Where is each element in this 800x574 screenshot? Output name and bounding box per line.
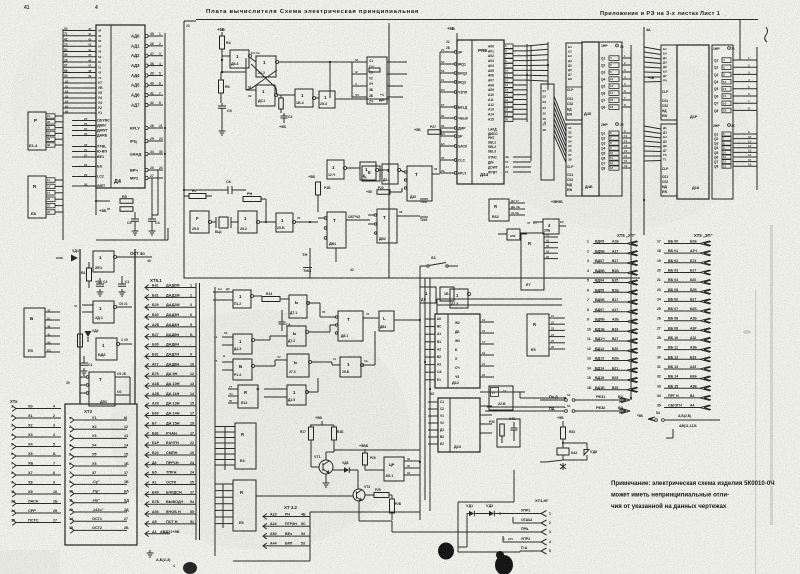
connector XT5.1 pin Б92 РЧАН (145, 432, 149, 438)
resistor R23 (374, 493, 389, 498)
wire D5 to PRE rows (386, 83, 388, 85)
capacitor C46 (511, 428, 518, 430)
wire 2D1 inputs (82, 304, 93, 306)
flip-flop DV2 (377, 209, 397, 243)
IC E62 pins (509, 202, 525, 204)
connector XT2 pin 3 У3 (70, 436, 74, 442)
IC D12 right stubs (480, 321, 494, 323)
wire fan PRE to D45 (527, 44, 548, 46)
wire xt4 row4 (503, 541, 541, 543)
box R30 C46 (497, 419, 520, 447)
IC D45 input column group2 (566, 124, 582, 196)
capacitor C5a (131, 219, 139, 221)
gate D1.3 (233, 334, 252, 354)
wire xt4 row5 (520, 550, 541, 552)
diode VD2 (85, 327, 92, 337)
connector XT1 pin 3 Х2 (12, 425, 16, 431)
IC D12 body (435, 314, 480, 388)
connector XT5 UP pin 1 ВД05 (593, 243, 627, 245)
IC D12 left stubs (425, 318, 435, 320)
connector XT5.1 body line (195, 283, 197, 540)
relay K42 (557, 448, 569, 455)
connector XT5 UP pin 15 ВД15 (593, 379, 627, 381)
connector XT3.2 pin ПГРЗН (263, 523, 267, 529)
IC E7 pins (544, 236, 558, 238)
gate 25.3a (319, 91, 335, 108)
IC E9 box (527, 314, 549, 356)
connector XT5 UP pin 6 ВД05 (593, 291, 627, 293)
gate 1B (360, 162, 376, 180)
bus vertical x631 (630, 45, 632, 400)
wire PRE output buses (526, 44, 528, 122)
connector XT5 ZP pin 17 ВБ 00 (664, 243, 700, 245)
gate DV1b (379, 311, 394, 331)
connector XT5.1 pin Д4 ПРР1Н (145, 462, 149, 468)
gate D6.1 (256, 85, 275, 106)
wire K42 loop (562, 443, 564, 448)
ink blob 3 (183, 562, 197, 574)
wire xt5 to P1.2 (213, 291, 233, 293)
frame right edge of oscillator section (388, 23, 390, 278)
connector XT4 pin УПР1 (541, 511, 547, 517)
wire D6.1 out (277, 94, 295, 96)
connector XT5.1 pin Б31 ДАД1М (145, 295, 149, 301)
connector XT5 ZP pin 32 ВБ 14 (664, 378, 700, 380)
IC E5 box (24, 308, 45, 357)
connector XT5.1 pin Б93 ДА 14Н (145, 413, 149, 419)
connector XT2 pin 10 .Пр" (70, 491, 74, 497)
IC D4 inner divider (110, 25, 112, 188)
resistor R5b (120, 207, 133, 212)
ink blob 2 (495, 555, 513, 574)
capacitor C1 (80, 363, 88, 365)
wire R18 to E6.1 (334, 449, 420, 451)
IC E12 left stubs (228, 388, 238, 390)
connector XT2 pin 7 37 (70, 472, 74, 478)
wire xt4 left loop (458, 501, 514, 503)
connector XT2 pin 14 ОСТ1 (70, 518, 74, 524)
connector XT5 UP pin 9 ВД0Б (593, 321, 627, 323)
connector XT5.1 pin А93 ВЧОБ Н (145, 511, 149, 517)
connector XT5.1 pin Б31 ДАД0М (145, 285, 149, 291)
IC D4 left pin group 2 (Y bus) (63, 82, 96, 84)
connector XT5 UP pin 14 ВД14 (593, 369, 627, 371)
IC D1R body (677, 45, 709, 199)
connector XT5 ZP pin 18 ВБ 01 (664, 252, 700, 254)
flip-flop D51 (89, 372, 115, 406)
IC E9 pins (549, 317, 565, 319)
gate 12.4 (327, 160, 344, 179)
bus verticals middle x420-430 (419, 266, 421, 520)
resistor R22 (377, 190, 390, 195)
gate D5.4 (382, 164, 398, 184)
connector XT5 ZP pin 23 ВБ 05 (664, 291, 700, 293)
wire xt4 row3 long (391, 521, 393, 532)
IC E8 pins (46, 178, 55, 182)
bus vertical right of D4 (164, 33, 166, 240)
gate D1.2 frame-bottom b (440, 287, 454, 301)
IC E5 pins (45, 311, 60, 313)
diode VD3 (344, 467, 349, 473)
wire osc internal (222, 71, 246, 73)
IC E4 left stubs (215, 426, 235, 428)
connector XT5 ZP pin 33 ВБ 15 (664, 387, 700, 389)
IC E6.1 pins (404, 460, 420, 462)
wire osc chain top (184, 189, 214, 191)
connector XT1 pin 7 ХБ (12, 463, 16, 469)
IC PRE left pins (454, 51, 457, 54)
connector XT5 UP pin 11 ВД1Ч (593, 340, 627, 342)
connector XT2 pin 11 .Но" (70, 500, 74, 506)
connector XT3.2 pin РН (263, 514, 267, 520)
connector XT1 pin 5 Х4 (12, 444, 16, 450)
connector XT5.1 last pin AVD21 (145, 531, 149, 537)
diode VD5 (489, 511, 494, 517)
gate 22.6 box (489, 386, 513, 410)
connector XT5.1 pin Б30 ДАД3Н (145, 314, 149, 320)
transistor VT2 (353, 489, 365, 501)
connector XT5 ZP pin 26 ВБ 08 (664, 320, 700, 322)
frame right corner (739, 20, 741, 61)
resistor R33 (561, 427, 566, 439)
wire xt4 row1 (467, 513, 469, 515)
crystal BQ1 (219, 217, 228, 228)
IC D4 left pin group 3 (control) (72, 120, 96, 122)
connector XT2 pin 15 ОСТ2 (70, 528, 74, 534)
connector XT1 pin 15 ПСТС (12, 520, 16, 526)
scan grain overlay (0, 0, 1, 1)
flip-flop D32 (407, 166, 432, 201)
IC D13 right stubs (480, 405, 492, 407)
ground right (666, 429, 673, 438)
capacitor C4 (148, 219, 156, 221)
wire long pair to D12 (437, 298, 562, 300)
resistor R18 (332, 427, 337, 440)
bus vertical x63 left of D4 (62, 29, 64, 240)
connector XT5 ZP pin 28 ВБ 10 (664, 339, 700, 341)
gate 25.2 (238, 211, 257, 233)
connector XT1 pin 9 Х7 (12, 472, 16, 478)
transistor VT1 (319, 460, 333, 474)
wire D4 bottom right verticals (151, 178, 153, 215)
connector XT5.1 pin Б29 ДАД2М (145, 304, 149, 310)
gate D1.5 (287, 385, 306, 405)
flip-flop D51 input pins (86, 376, 89, 379)
gate P1.4 (233, 359, 252, 380)
connector XT5 ZP pin 20 ВБ 03 (664, 271, 700, 273)
connector XT5 ZP pin 21 ВБ 04 (664, 281, 700, 283)
gate D2.3 (450, 289, 468, 308)
resistor R4 (220, 36, 225, 49)
connector XT5 UP pin 7 ВД0Б (593, 301, 627, 303)
connector XT5 ZP pin 24 ВБ 06 (664, 300, 700, 302)
connector XT1 pin 6 Х5 (12, 453, 16, 459)
resistor R16 (316, 182, 321, 195)
connector XT5 ZP pin 19 ВБ 02 (664, 262, 700, 264)
gate D7.3 (287, 354, 309, 377)
junction dots bus (221, 59, 223, 61)
resistor R6 (219, 80, 224, 93)
bus vertical x548 lower (541, 84, 554, 180)
connector XT5 ZP pin 25 ВБ 07 (664, 310, 700, 312)
flip-flop D5.1 (338, 311, 363, 341)
gate D7.2 (287, 326, 306, 346)
wire D13 to relay rows (480, 391, 520, 393)
connector XT2 pin 6 У5 (70, 463, 74, 469)
connector XT5 ZP pin 29 ВБ 11 (664, 349, 700, 351)
connector XT1 pin 4 Х3 (12, 434, 16, 440)
connector XT5.1 pin Б7 ДА 15Н (145, 423, 149, 429)
connector XT4 pin ОГАШ (541, 520, 547, 526)
gate E box (362, 166, 380, 181)
IC E4 box (235, 423, 256, 469)
connector XT5.1 pin Б49 БЧРДСН (145, 492, 149, 498)
resistor R13 (262, 297, 280, 302)
connector XT5.1 pin А29 ДА 13Н (145, 403, 149, 409)
resistor R2 (78, 334, 83, 347)
connector XT5.1 pin А2Б ДАД4Н (145, 324, 149, 330)
gate 26.2 (256, 56, 276, 77)
resistor RN (243, 197, 261, 202)
connector XT2 pin 5 У5 (70, 454, 74, 460)
wire VT2 base long (256, 495, 353, 497)
connector XT5 UP pin 1Б ВД1Б (593, 389, 627, 391)
IC D4 body (96, 25, 145, 188)
capacitor C2 (96, 284, 104, 286)
connector XT4 pin П.А (541, 548, 547, 554)
gate D6.4 (230, 50, 249, 68)
connector XT5 UP pin 13 ВД13 (593, 360, 627, 362)
IC E5b left stubs (215, 483, 233, 485)
gate 2E1 (93, 251, 114, 272)
wire xt4 row2 elbow (513, 522, 541, 524)
diode VD8 (584, 450, 589, 456)
IC PRE D44 body (457, 40, 504, 184)
gate 2LB box (543, 219, 559, 234)
wire latch cross-coupling (246, 58, 277, 95)
IC E8 box (28, 176, 46, 218)
IC D4 left pin fan group 1 (address) (63, 30, 96, 32)
IC D1R input column group2 (661, 124, 677, 196)
diode VD1 (63, 255, 78, 262)
connector XT5.1 pin А2Б ДА 11Н (145, 393, 149, 399)
connector XT2 pin 2 Х2 (70, 426, 74, 432)
wire xt3.2 feeds (310, 511, 420, 513)
gate 16.4 (295, 89, 313, 107)
gate 25.5 (190, 211, 209, 233)
connector XT1 pin 9 Х8 (12, 482, 16, 488)
connector XT1 pin 11 Х9 (12, 491, 16, 497)
IC E1.4 box (28, 112, 46, 150)
gate D5.5 (340, 357, 361, 377)
connector XT5.1 pin Б1Р ЕАЧТН (145, 442, 149, 448)
connector XT5 ZP pin 35 СБ!ОГН (664, 407, 700, 409)
IC E62 box (489, 199, 509, 221)
gate 2L2 box (507, 229, 520, 240)
IC E7 box (521, 233, 544, 290)
bus vertical x644 (4A) (643, 27, 645, 235)
ink blob 1 (438, 543, 454, 560)
connector XT1 pin 2 Х1 (12, 415, 16, 421)
wire vt2 down (358, 501, 360, 521)
IC D13 left stubs (428, 401, 438, 403)
gate D1.2 frame-bottom a (420, 287, 436, 303)
connector XT5.1 pin А1Б ДА 10Н (145, 383, 149, 389)
connector XT5.1 pin А1 ОСТК (145, 482, 149, 488)
connector XT2 pin ч У1 (70, 417, 74, 423)
resistor R17 (309, 427, 314, 440)
connector XT5 ZP pin 31 ВБ 13 (664, 368, 700, 370)
connector XT5 ZP pin 33 ПРГ Н (664, 397, 700, 399)
connector XT2 pin 12 .141ч" (70, 509, 74, 515)
frame oscillator section (184, 21, 640, 278)
connector XT5.1 pin Б31 ДАД7Н (145, 354, 149, 360)
resistor R30 (500, 424, 505, 436)
resistor R7 (189, 194, 206, 199)
capacitor C1a (118, 284, 126, 286)
connector XT3.2 pin ВЕч (263, 533, 267, 539)
IC E1.4 pins (46, 114, 55, 118)
wire PRE left bus (439, 52, 441, 173)
connector XT1 pin 13 ЛАСК (12, 501, 16, 507)
connector XT1 pin 14 СРР (12, 510, 16, 516)
smudge right (743, 330, 751, 334)
flip-flop DV1 osc (327, 212, 346, 248)
resistor R1 (87, 268, 92, 281)
gate 25.3b (276, 213, 293, 232)
connector XT5 UP pin 3 ВД07 (593, 262, 627, 264)
connector XT5.1 pin Б30 ДАД6Н (145, 344, 149, 350)
connector XT5 ZP pin 27 ВБ 09 (664, 329, 700, 331)
gate D7.1 (289, 295, 307, 318)
wire fan to D45 group2 (554, 96, 566, 126)
bus vertical x215 (214, 287, 216, 556)
capacitor C5 osc (218, 106, 226, 108)
flip-flop D51 outputs (115, 376, 130, 378)
IC D1R input column (661, 45, 677, 120)
gate 2D1 (93, 301, 114, 323)
IC D1R output column (712, 45, 733, 199)
wire R5 left (96, 200, 110, 202)
IC D45 output column (599, 42, 622, 196)
wire 26.2 output (278, 61, 330, 63)
connector XT5.1 pin Б27 ДАД5Н (145, 334, 149, 340)
connector XT5.1 pin АТ7 ДАД8Н (145, 363, 149, 369)
wire fan x644 to D1R (644, 47, 661, 50)
capacitor C6 (228, 186, 232, 194)
connector XT5.1 pin Б5 ТПРН (145, 472, 149, 478)
connector XT5 UP pin 10 ВД1Б (593, 330, 627, 332)
connector XT4 pin ПРА. (541, 529, 547, 535)
connector XT5 UP pin 4 ВД0Б (593, 272, 627, 274)
module box upper-left (80, 249, 135, 404)
IC D45 input column (566, 43, 582, 120)
IC E5b box (233, 480, 256, 531)
resistor R5 (120, 199, 133, 204)
transistor VT1 emitter ground (325, 474, 327, 480)
connector XT5.1 pin Б75 ДА 9Н (145, 373, 149, 379)
connector XT4 pin УПР2 (541, 539, 547, 545)
connector XT2 pin 9 .Су" (70, 482, 74, 488)
wire OST 40 (116, 256, 152, 258)
connector XT5.1 ground (147, 550, 154, 557)
title underline (196, 19, 758, 21)
connector XT5.1 pin Б20 СМПН (145, 452, 149, 458)
resistor R26 (390, 499, 395, 513)
resistor RQ1 (279, 98, 284, 109)
connector XT2 box (65, 404, 137, 545)
connector XT5 UP pin 8 ВД07 (593, 311, 627, 313)
connector XT5 UP pin 5 ВД04 (593, 282, 627, 284)
ground K42 (560, 463, 566, 470)
connector XT5 UP pin 12 ВД12 (593, 350, 627, 352)
connector XT5 ZP pin 30 ВБ 12 (664, 358, 700, 360)
connector XT2 pin 4 У4 (70, 445, 74, 451)
bus vertical right connector x757 (756, 47, 758, 190)
diode VD4 (469, 511, 474, 517)
capacitor C3 (281, 116, 288, 118)
capacitor C8 (279, 322, 286, 324)
connector XT5.1 pin А5 ПСТ Н (145, 521, 149, 527)
resistor R20 (363, 453, 368, 465)
IC D5 left stubs (352, 61, 367, 63)
connector XT3.2 pin БРЛ (263, 543, 267, 549)
connector XT3.2 body outline (309, 512, 311, 561)
IC E6.1 box (384, 457, 404, 481)
IC E12 box (238, 385, 258, 408)
wire bottom bus of D4 section (96, 239, 168, 241)
IC D13 body (438, 398, 480, 452)
gate 2D2 (96, 338, 117, 360)
IC D45 body (582, 42, 599, 196)
resistor P5 (369, 68, 380, 72)
gate P1.2 (233, 290, 251, 308)
connector XT1 pin 1 Х0 (12, 406, 16, 412)
connector XT5.1 pin Б7Б ВЫВОДЧ (145, 501, 149, 507)
IC D5 aux box (367, 57, 387, 104)
wire DV2 outputs (397, 215, 420, 217)
connector XT5 UP pin 2 ВД0Б (593, 252, 627, 254)
